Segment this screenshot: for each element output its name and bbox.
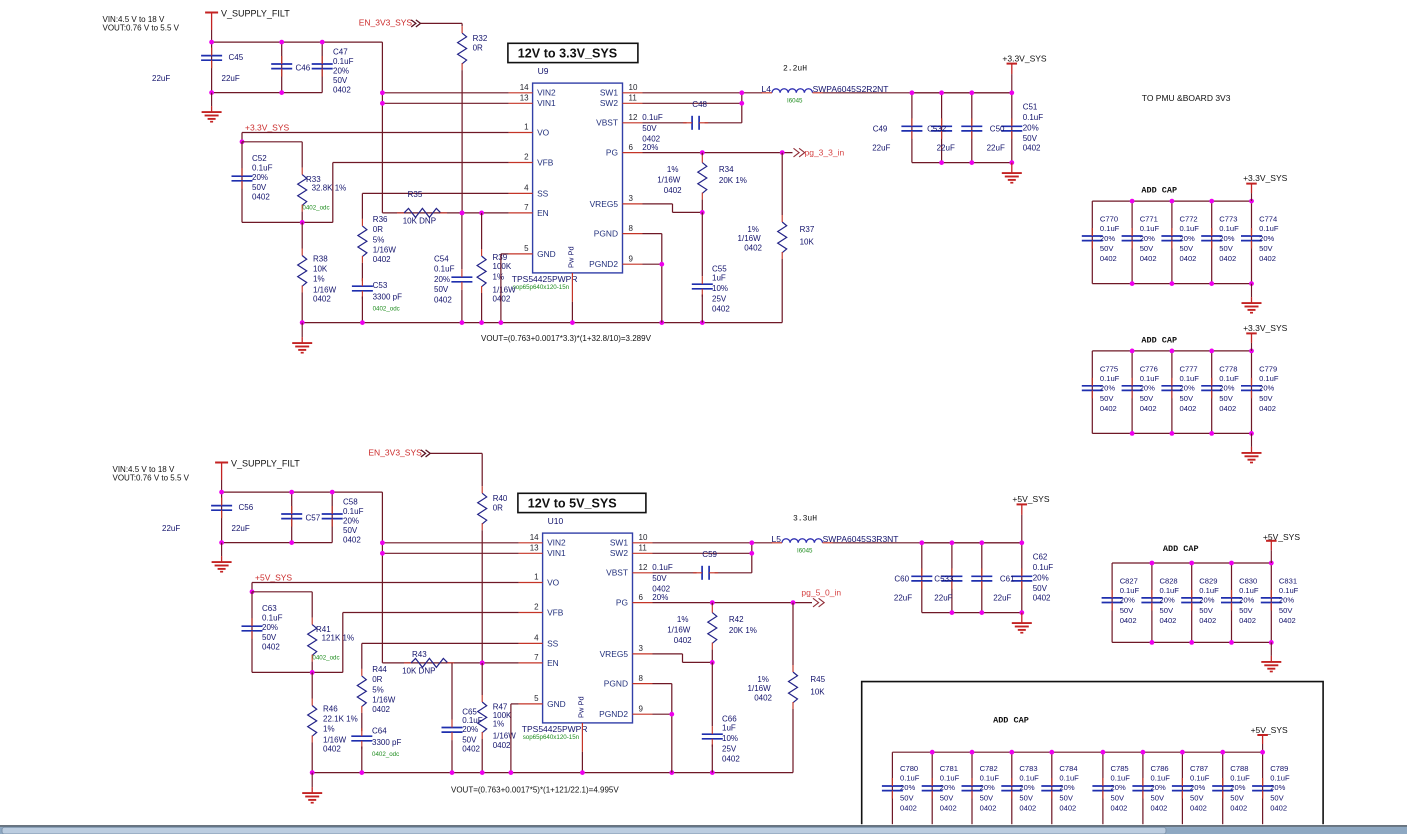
- wire EN_3V3_SYS: [421, 22, 462, 24]
- capacitor C788: [1222, 752, 1224, 834]
- pin 8 PGND: [623, 233, 643, 235]
- svg-text:VOUT=(0.763+0.0017*3.3)*(1+32.: VOUT=(0.763+0.0017*3.3)*(1+32.8/10)=3.28…: [481, 334, 652, 343]
- svg-text:C784: C784: [1059, 764, 1077, 773]
- wire R32 to EN: [481, 530, 483, 663]
- svg-text:EN: EN: [547, 658, 559, 668]
- svg-text:20%: 20%: [462, 725, 478, 734]
- svg-text:SW2: SW2: [610, 548, 628, 558]
- svg-text:0402: 0402: [252, 192, 270, 201]
- svg-text:1: 1: [534, 573, 539, 582]
- svg-text:0402: 0402: [674, 636, 692, 645]
- svg-text:9: 9: [639, 704, 644, 713]
- svg-text:sop65p640x120-15n: sop65p640x120-15n: [523, 734, 580, 741]
- svg-text:C49: C49: [873, 124, 888, 133]
- svg-text:0402: 0402: [1140, 404, 1157, 413]
- svg-text:10K DNP: 10K DNP: [402, 666, 435, 675]
- svg-text:ADD CAP: ADD CAP: [993, 716, 1029, 726]
- svg-text:50V: 50V: [1151, 793, 1165, 802]
- svg-text:+3.3V_SYS: +3.3V_SYS: [245, 122, 290, 132]
- junction dots input group: [209, 40, 214, 45]
- svg-text:VOUT:0.76 V to 5.5 V: VOUT:0.76 V to 5.5 V: [113, 473, 190, 482]
- svg-text:10K: 10K: [313, 265, 328, 274]
- capacitor C532: [941, 93, 943, 163]
- svg-text:9: 9: [629, 254, 634, 263]
- svg-text:50V: 50V: [1120, 606, 1134, 615]
- svg-text:C60: C60: [894, 574, 909, 583]
- svg-text:1/16W: 1/16W: [373, 245, 397, 254]
- svg-text:50V: 50V: [1180, 244, 1194, 253]
- svg-text:R38: R38: [313, 255, 328, 264]
- capacitor C785: [1102, 752, 1104, 834]
- svg-text:50V: 50V: [1279, 606, 1293, 615]
- svg-text:50V: 50V: [434, 285, 449, 294]
- svg-text:0402: 0402: [1033, 594, 1051, 603]
- pin 7 EN: [509, 212, 533, 214]
- svg-text:1/16W: 1/16W: [323, 736, 347, 745]
- svg-text:2: 2: [524, 153, 529, 162]
- wire cap bank bottom bus: [1112, 641, 1271, 643]
- capacitor C50: [971, 93, 973, 163]
- svg-text:0402: 0402: [1180, 254, 1197, 263]
- svg-text:20%: 20%: [1190, 783, 1205, 792]
- svg-text:C780: C780: [900, 764, 918, 773]
- resistor R39: [479, 211, 484, 216]
- svg-text:50V: 50V: [462, 735, 477, 744]
- pin 6 PG: [633, 602, 653, 604]
- svg-text:7: 7: [524, 203, 529, 212]
- resistor R46: [308, 706, 317, 737]
- svg-text:50V: 50V: [252, 183, 267, 192]
- capacitor C47: [321, 42, 323, 93]
- capacitor C61: [981, 543, 983, 613]
- svg-text:1%: 1%: [677, 615, 689, 624]
- svg-text:C51: C51: [1023, 103, 1038, 112]
- svg-text:+5V_SYS: +5V_SYS: [1251, 725, 1288, 735]
- wire EN: [382, 662, 518, 664]
- svg-text:50V: 50V: [642, 124, 657, 133]
- wire PGND2: [653, 713, 672, 715]
- wire SS: [362, 642, 519, 644]
- svg-text:0402: 0402: [980, 803, 997, 812]
- resistor R47: [480, 661, 485, 666]
- capacitor C64: [361, 713, 363, 731]
- pin 8 PGND: [633, 683, 653, 685]
- ground output: [1021, 613, 1023, 624]
- junction dots input group: [219, 490, 224, 495]
- wire PGND: [653, 683, 672, 685]
- capacitor C60: [921, 543, 923, 613]
- svg-text:5: 5: [534, 694, 539, 703]
- svg-text:50V: 50V: [1023, 134, 1038, 143]
- svg-text:20%: 20%: [1033, 573, 1049, 582]
- svg-text:10: 10: [629, 83, 638, 92]
- wire input cap ground rail: [222, 542, 333, 544]
- wire VO: [252, 582, 519, 584]
- svg-text:sop65p640x120-15n: sop65p640x120-15n: [513, 284, 570, 291]
- svg-text:0.1uF: 0.1uF: [1120, 586, 1140, 595]
- wire VFB rail: [242, 221, 333, 223]
- capacitor C831: [1270, 563, 1272, 642]
- svg-text:1%: 1%: [747, 225, 759, 234]
- svg-text:0.1uF: 0.1uF: [1219, 224, 1239, 233]
- ground output: [1011, 163, 1013, 174]
- svg-text:0.1uF: 0.1uF: [1151, 773, 1171, 782]
- svg-text:C781: C781: [940, 764, 958, 773]
- capacitor C66: [711, 662, 713, 726]
- wire R32 to EN: [461, 70, 463, 213]
- svg-text:0402: 0402: [343, 536, 361, 545]
- svg-text:Pw Pd: Pw Pd: [567, 246, 576, 268]
- wire SW2: [653, 552, 752, 554]
- svg-text:0402: 0402: [1219, 254, 1236, 263]
- svg-text:PGND: PGND: [594, 229, 618, 239]
- wire thermal pad: [581, 723, 583, 752]
- svg-text:1/16W: 1/16W: [372, 695, 396, 704]
- svg-text:0.1uF: 0.1uF: [434, 265, 455, 274]
- svg-text:0.1uF: 0.1uF: [1140, 374, 1160, 383]
- svg-text:20%: 20%: [642, 143, 658, 152]
- svg-text:TO PMU &BOARD 3V3: TO PMU &BOARD 3V3: [1142, 93, 1231, 103]
- capacitor C771: [1131, 201, 1133, 284]
- resistor R41: [311, 592, 313, 618]
- svg-text:0R: 0R: [473, 44, 483, 53]
- svg-text:11: 11: [629, 94, 638, 103]
- svg-text:C778: C778: [1219, 364, 1237, 373]
- wire VIN1: [382, 552, 518, 554]
- svg-text:C772: C772: [1180, 215, 1198, 224]
- svg-text:20%: 20%: [1259, 384, 1274, 393]
- svg-text:C782: C782: [980, 764, 998, 773]
- svg-text:0.1uF: 0.1uF: [252, 164, 273, 173]
- svg-text:C770: C770: [1100, 215, 1118, 224]
- capacitor C53: [361, 263, 363, 281]
- svg-text:C56: C56: [239, 503, 254, 512]
- svg-text:0R: 0R: [373, 225, 383, 234]
- capacitor C52: [242, 141, 302, 143]
- svg-text:VIN1: VIN1: [547, 548, 566, 558]
- svg-text:ADD CAP: ADD CAP: [1141, 335, 1177, 345]
- capacitor C49: [911, 93, 913, 163]
- power flag V_SUPPLY_FILT: [205, 12, 218, 14]
- svg-text:TPS54425PWPR: TPS54425PWPR: [522, 724, 588, 734]
- capacitor C65: [451, 663, 453, 720]
- svg-text:6: 6: [639, 593, 644, 602]
- capacitor C45: [211, 42, 213, 93]
- wire GND pin: [511, 703, 519, 705]
- svg-text:50V: 50V: [1160, 606, 1174, 615]
- svg-text:0402: 0402: [1219, 404, 1236, 413]
- svg-text:1%: 1%: [667, 165, 679, 174]
- wire VFB rail: [252, 671, 343, 673]
- capacitor C776: [1131, 351, 1133, 434]
- svg-text:C775: C775: [1100, 364, 1118, 373]
- svg-text:0402: 0402: [1151, 803, 1168, 812]
- svg-text:50V: 50V: [1259, 394, 1273, 403]
- svg-text:EN_3V3_SYS: EN_3V3_SYS: [368, 448, 422, 458]
- capacitor C827: [1111, 563, 1113, 642]
- capacitor C784: [1051, 752, 1053, 834]
- wire PG: [653, 602, 813, 604]
- svg-text:0402: 0402: [493, 295, 511, 304]
- svg-text:C57: C57: [306, 514, 321, 523]
- svg-text:20%: 20%: [343, 517, 359, 526]
- wire VREG5: [653, 653, 683, 655]
- svg-text:+3.3V_SYS: +3.3V_SYS: [1243, 173, 1288, 183]
- svg-text:0.1uF: 0.1uF: [642, 113, 663, 122]
- svg-text:C63: C63: [262, 604, 277, 613]
- svg-text:C66: C66: [722, 715, 737, 724]
- pin 3 VREG5: [633, 653, 653, 655]
- svg-text:C45: C45: [229, 53, 244, 62]
- wire VBST: [653, 572, 697, 574]
- wire cap bank bottom bus: [1092, 283, 1251, 285]
- capacitor C54: [461, 213, 463, 269]
- wire input cap ground rail: [212, 92, 323, 94]
- svg-text:22uF: 22uF: [934, 593, 952, 602]
- svg-text:12: 12: [639, 563, 648, 572]
- svg-text:1/16W: 1/16W: [313, 286, 337, 295]
- svg-text:50V: 50V: [980, 793, 994, 802]
- ground input filter: [221, 543, 223, 557]
- svg-text:0.1uF: 0.1uF: [1019, 773, 1039, 782]
- svg-text:C827: C827: [1120, 576, 1138, 585]
- svg-text:22.1K 1%: 22.1K 1%: [323, 715, 358, 724]
- wire bank3 top bus: [892, 751, 1262, 753]
- svg-text:0402: 0402: [744, 243, 762, 252]
- pin 6 PG: [623, 152, 643, 154]
- capacitor C789: [1262, 752, 1264, 834]
- svg-text:0402: 0402: [1023, 144, 1041, 153]
- svg-text:50V: 50V: [1111, 793, 1125, 802]
- svg-text:1/16W: 1/16W: [493, 732, 517, 741]
- svg-text:0402: 0402: [1019, 803, 1036, 812]
- svg-text:0402_odc: 0402_odc: [373, 306, 400, 313]
- svg-text:20%: 20%: [1239, 596, 1254, 605]
- pin 13 VIN1: [519, 552, 543, 554]
- svg-text:C831: C831: [1279, 576, 1297, 585]
- capacitor C773: [1211, 201, 1213, 284]
- capacitor C782: [971, 752, 973, 834]
- svg-text:20%: 20%: [980, 783, 995, 792]
- svg-text:VBST: VBST: [606, 568, 628, 578]
- svg-text:2: 2: [534, 603, 539, 612]
- svg-text:1/16W: 1/16W: [738, 234, 762, 243]
- svg-text:20%: 20%: [1100, 234, 1115, 243]
- svg-text:C773: C773: [1219, 215, 1237, 224]
- pin 4 SS: [509, 192, 533, 194]
- svg-text:C786: C786: [1151, 764, 1169, 773]
- wire VBST: [643, 122, 687, 124]
- svg-text:1%: 1%: [313, 275, 325, 284]
- svg-text:22uF: 22uF: [162, 524, 180, 533]
- svg-text:1uF: 1uF: [722, 724, 736, 733]
- svg-text:20%: 20%: [1230, 783, 1245, 792]
- svg-text:0.1uF: 0.1uF: [1190, 773, 1210, 782]
- svg-text:6: 6: [629, 143, 634, 152]
- svg-text:0.1uF: 0.1uF: [333, 57, 354, 66]
- svg-text:V_SUPPLY_FILT: V_SUPPLY_FILT: [231, 459, 300, 469]
- wire ground bus: [312, 772, 793, 774]
- svg-text:3: 3: [629, 194, 634, 203]
- svg-text:0402: 0402: [372, 705, 390, 714]
- svg-text:VOUT=(0.763+0.0017*5)*(1+121/2: VOUT=(0.763+0.0017*5)*(1+121/22.1)=4.995…: [451, 785, 619, 794]
- resistor R38: [298, 256, 307, 287]
- resistor R32: [458, 33, 467, 64]
- capacitor C779: [1251, 351, 1253, 434]
- pin 7 EN: [519, 662, 543, 664]
- svg-text:5%: 5%: [373, 235, 385, 244]
- wire PG: [643, 152, 793, 154]
- net label pg_5_0_in: [813, 598, 819, 607]
- svg-text:R44: R44: [372, 665, 387, 674]
- pin 9 PGND2: [633, 713, 653, 715]
- svg-text:50V: 50V: [1219, 244, 1233, 253]
- svg-text:50V: 50V: [1059, 793, 1073, 802]
- svg-text:PGND2: PGND2: [599, 709, 628, 719]
- wire VIN bus drop: [381, 42, 383, 213]
- svg-text:0402: 0402: [1120, 616, 1137, 625]
- svg-text:50V: 50V: [1033, 584, 1048, 593]
- svg-text:C783: C783: [1019, 764, 1037, 773]
- svg-text:22uF: 22uF: [152, 74, 170, 83]
- svg-text:0402: 0402: [664, 186, 682, 195]
- svg-text:5: 5: [524, 244, 529, 253]
- svg-text:20%: 20%: [1160, 596, 1175, 605]
- svg-text:22uF: 22uF: [894, 593, 912, 602]
- resistor R33: [301, 142, 303, 168]
- capacitor C787: [1181, 752, 1183, 834]
- svg-text:C55: C55: [712, 265, 727, 274]
- resistor R35: [404, 208, 441, 217]
- svg-text:0402: 0402: [262, 642, 280, 651]
- svg-text:0402: 0402: [333, 86, 351, 95]
- svg-text:PG: PG: [616, 598, 628, 608]
- svg-text:20%: 20%: [1180, 234, 1195, 243]
- pin 3 VREG5: [623, 203, 643, 205]
- ground main: [301, 323, 303, 338]
- capacitor C533: [951, 543, 953, 613]
- svg-text:R37: R37: [800, 225, 815, 234]
- svg-text:VIN1: VIN1: [537, 98, 556, 108]
- svg-text:0.1uF: 0.1uF: [980, 773, 1000, 782]
- svg-text:0402: 0402: [1239, 616, 1256, 625]
- svg-text:20%: 20%: [940, 783, 955, 792]
- svg-text:SS: SS: [537, 188, 549, 198]
- svg-text:50V: 50V: [1100, 394, 1114, 403]
- svg-text:1%: 1%: [493, 273, 505, 282]
- svg-text:14: 14: [520, 83, 529, 92]
- capacitor C828: [1151, 563, 1153, 642]
- svg-text:C789: C789: [1270, 764, 1288, 773]
- wire SW1 node: [653, 542, 773, 544]
- wire EN_3V3_SYS: [430, 452, 482, 454]
- svg-text:20%: 20%: [1023, 123, 1039, 132]
- svg-text:0402: 0402: [1100, 404, 1117, 413]
- svg-text:1%: 1%: [757, 675, 769, 684]
- svg-text:22uF: 22uF: [222, 74, 240, 83]
- svg-text:20%: 20%: [1180, 384, 1195, 393]
- svg-text:0402: 0402: [1100, 254, 1117, 263]
- svg-text:0.1uF: 0.1uF: [1270, 773, 1290, 782]
- svg-text:50V: 50V: [1180, 394, 1194, 403]
- svg-text:C532: C532: [927, 124, 947, 133]
- svg-text:20%: 20%: [1120, 596, 1135, 605]
- svg-text:C61: C61: [1000, 574, 1015, 583]
- svg-text:20%: 20%: [1219, 384, 1234, 393]
- resistor R36: [358, 226, 367, 257]
- pin 9 PGND2: [623, 263, 643, 265]
- svg-text:0402: 0402: [1111, 803, 1128, 812]
- svg-text:ADD CAP: ADD CAP: [1141, 186, 1177, 196]
- svg-text:0.1uF: 0.1uF: [1140, 224, 1160, 233]
- svg-text:0.1uF: 0.1uF: [262, 614, 283, 623]
- svg-text:50V: 50V: [900, 793, 914, 802]
- svg-text:50V: 50V: [1190, 793, 1204, 802]
- wire SS: [362, 192, 508, 194]
- resistor R45: [792, 603, 794, 665]
- svg-text:R36: R36: [373, 215, 388, 224]
- svg-text:VO: VO: [547, 577, 560, 587]
- svg-text:0R: 0R: [493, 504, 503, 513]
- svg-text:R32: R32: [473, 34, 488, 43]
- svg-text:C787: C787: [1190, 764, 1208, 773]
- svg-text:U9: U9: [538, 66, 549, 76]
- svg-text:10: 10: [639, 533, 648, 542]
- svg-text:50V: 50V: [1239, 606, 1253, 615]
- svg-text:12: 12: [629, 113, 638, 122]
- svg-text:50V: 50V: [1140, 244, 1154, 253]
- wire SW1 node: [643, 92, 763, 94]
- svg-text:50V: 50V: [1199, 606, 1213, 615]
- svg-text:50V: 50V: [1230, 793, 1244, 802]
- svg-text:20%: 20%: [1151, 783, 1166, 792]
- svg-text:Pw Pd: Pw Pd: [577, 696, 586, 718]
- svg-text:1%: 1%: [493, 719, 505, 728]
- title box 12V to 5V_SYS: [518, 493, 646, 512]
- svg-text:10K: 10K: [810, 687, 825, 696]
- svg-text:C58: C58: [343, 497, 358, 506]
- svg-text:C48: C48: [692, 100, 707, 109]
- svg-text:1: 1: [524, 123, 529, 132]
- svg-text:1%: 1%: [323, 725, 335, 734]
- wire VIN bus drop: [381, 492, 383, 663]
- capacitor C774: [1251, 201, 1253, 284]
- pin 5 GND: [519, 703, 543, 705]
- svg-text:R45: R45: [810, 675, 825, 684]
- capacitor C770: [1091, 201, 1093, 284]
- svg-text:1uF: 1uF: [712, 274, 726, 283]
- resistor R37: [781, 153, 783, 215]
- pin 4 SS: [519, 642, 543, 644]
- svg-text:20%: 20%: [1019, 783, 1034, 792]
- svg-text:pg_3_3_in: pg_3_3_in: [805, 148, 845, 158]
- wire VIN1: [382, 102, 508, 104]
- svg-text:50V: 50V: [1019, 793, 1033, 802]
- svg-text:20%: 20%: [1100, 384, 1115, 393]
- svg-text:20%: 20%: [252, 173, 268, 182]
- svg-text:12V to 3.3V_SYS: 12V to 3.3V_SYS: [518, 46, 617, 60]
- svg-text:0402: 0402: [1259, 254, 1276, 263]
- svg-text:C779: C779: [1259, 364, 1277, 373]
- svg-text:0.1uF: 0.1uF: [462, 716, 483, 725]
- svg-text:1/16W: 1/16W: [657, 176, 681, 185]
- ground cap bank: [1251, 433, 1253, 447]
- svg-text:20K 1%: 20K 1%: [719, 176, 747, 185]
- wire VIN2: [382, 542, 518, 544]
- wire L to output: [833, 542, 1022, 544]
- svg-text:0402: 0402: [1199, 616, 1216, 625]
- svg-text:7: 7: [534, 653, 539, 662]
